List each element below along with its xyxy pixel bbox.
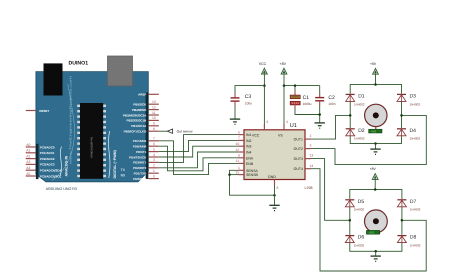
power +8V (VS) xyxy=(280,62,320,124)
svg-text:11: 11 xyxy=(236,159,240,163)
junction VCC/C3 xyxy=(263,84,266,87)
svg-text:C1: C1 xyxy=(303,95,310,101)
svg-text:IN3: IN3 xyxy=(246,145,252,149)
ground below C3 xyxy=(230,119,240,124)
svg-text:D3: D3 xyxy=(410,93,417,99)
svg-text:DUINO1: DUINO1 xyxy=(69,61,89,67)
pin RESET xyxy=(26,110,36,112)
ground below C2 xyxy=(315,123,325,128)
wire OUT3 to motor2 left xyxy=(311,159,350,221)
svg-text:A5: A5 xyxy=(26,172,30,176)
svg-text:IN4: IN4 xyxy=(246,151,252,155)
svg-text:A0: A0 xyxy=(26,143,30,147)
label ANALOG IN xyxy=(60,147,61,177)
pin PB1/OC1A (9) xyxy=(148,125,159,127)
out sensor terminal xyxy=(159,129,194,133)
pin PB2/SS/OC1B (10) xyxy=(148,119,159,121)
right header strip xyxy=(146,93,149,180)
svg-text:1N4002: 1N4002 xyxy=(410,244,421,248)
pin PC5/ADC5/SCL (A5) xyxy=(26,175,36,177)
svg-text:OUT3: OUT3 xyxy=(294,157,303,161)
svg-text:ANALOG IN: ANALOG IN xyxy=(65,155,69,176)
pin OUT1 (2) xyxy=(305,138,311,140)
svg-text:7: 7 xyxy=(238,136,240,140)
wire OUT1 to motor1 left xyxy=(311,115,350,139)
atmega chip U-chip xyxy=(80,103,103,179)
pin IN3 (10) xyxy=(238,145,244,147)
junction bridge2 bottom xyxy=(374,250,377,253)
svg-text:7: 7 xyxy=(153,137,155,141)
svg-text:1N4002: 1N4002 xyxy=(354,137,365,141)
svg-text:PB0/ICP1/CLKO: PB0/ICP1/CLKO xyxy=(124,130,147,134)
wire bridge1 ground stub xyxy=(375,144,377,149)
svg-text:GND: GND xyxy=(268,175,276,179)
svg-text:13: 13 xyxy=(152,100,156,104)
svg-text:D1: D1 xyxy=(358,93,365,99)
diode D3 1N4002 xyxy=(397,93,420,106)
svg-text:PD2/INT0: PD2/INT0 xyxy=(133,166,147,170)
svg-text:PD6/AIN0: PD6/AIN0 xyxy=(133,145,147,149)
motor M2 xyxy=(365,210,388,235)
svg-text:PB1/OC1A: PB1/OC1A xyxy=(131,124,147,128)
svg-text:1N4002: 1N4002 xyxy=(354,208,365,212)
junction motor2 right xyxy=(401,219,404,222)
diode D2 1N4002 xyxy=(346,128,365,141)
diode D4 1N4002 xyxy=(397,128,420,141)
svg-text:3: 3 xyxy=(310,144,312,148)
svg-text:6: 6 xyxy=(153,142,155,146)
svg-text:1: 1 xyxy=(153,169,155,173)
wire C2 bottom xyxy=(319,101,321,105)
svg-text:+8V: +8V xyxy=(370,62,377,66)
svg-text:www.TheEngineeringProjects.com: www.TheEngineeringProjects.com xyxy=(69,75,73,164)
svg-text:PB3/MOSI/OC2A: PB3/MOSI/OC2A xyxy=(123,113,147,117)
svg-text:2: 2 xyxy=(153,164,155,168)
diode D8 1N4002 xyxy=(397,235,420,248)
svg-text:U1: U1 xyxy=(290,123,297,129)
svg-text:+8V: +8V xyxy=(280,62,287,66)
svg-text:A4: A4 xyxy=(26,166,30,170)
svg-text:AREF: AREF xyxy=(138,93,146,97)
svg-text:2: 2 xyxy=(310,134,312,138)
ground bridge1 xyxy=(370,149,380,154)
pin PD2/INT0 (2) xyxy=(148,167,159,169)
svg-text:12: 12 xyxy=(152,105,156,109)
pin PB0/ICP1/CLKO (8) xyxy=(148,130,159,132)
junction GND pin 8 xyxy=(273,194,276,197)
svg-text:D2: D2 xyxy=(358,128,365,134)
TEP swoosh curve xyxy=(52,84,74,181)
arduino DUINO1 board xyxy=(26,56,159,191)
svg-text:PD7/AIN1: PD7/AIN1 xyxy=(133,139,147,143)
wire C2 top xyxy=(319,86,321,94)
wire PD6 to ENA xyxy=(159,146,238,171)
pin PD6/AIN0 (6) xyxy=(148,145,159,147)
wire bridge2 ground stub xyxy=(375,251,377,256)
pin IN2 (7) xyxy=(238,139,244,141)
wire OUT2 to motor1 right xyxy=(311,115,426,164)
svg-text:5: 5 xyxy=(153,147,155,151)
pin OUT4 (14) xyxy=(305,168,311,170)
svg-text:D8: D8 xyxy=(410,235,417,241)
svg-text:VS: VS xyxy=(278,133,283,137)
usb connector xyxy=(108,56,133,86)
power jack xyxy=(44,63,63,95)
wire C3 bottom xyxy=(234,101,236,105)
svg-text:100n: 100n xyxy=(245,102,252,106)
svg-text:PD4/T0/XCK: PD4/T0/XCK xyxy=(129,155,147,159)
svg-text:+8V: +8V xyxy=(370,167,377,171)
pin PB5/SCK (13) xyxy=(148,103,159,105)
svg-text:10: 10 xyxy=(152,116,156,120)
pin PC3/ADC3 (A3) xyxy=(26,163,36,165)
wire VS rail xyxy=(283,73,285,124)
junction bridge1 bottom xyxy=(374,142,377,145)
power +8V bridge2 xyxy=(370,167,378,190)
svg-text:PC3/ADC3: PC3/ADC3 xyxy=(40,163,55,167)
svg-text:L298: L298 xyxy=(305,186,313,190)
svg-text:ENB: ENB xyxy=(246,162,254,166)
diode D6 1N4002 xyxy=(345,235,364,248)
svg-text:SENSB: SENSB xyxy=(246,173,259,177)
pin SENSA (1) xyxy=(238,169,244,171)
pin PB4/MISO (12) xyxy=(148,109,159,111)
svg-text:4: 4 xyxy=(153,153,155,157)
junction motor2 left xyxy=(349,219,352,222)
svg-text:1000u: 1000u xyxy=(303,102,312,106)
svg-text:OUT4: OUT4 xyxy=(294,167,303,171)
svg-text:IN1: IN1 xyxy=(246,133,252,137)
svg-text:5: 5 xyxy=(238,130,240,134)
ground bridge2 xyxy=(371,256,381,261)
left header strip xyxy=(36,144,39,179)
power +8V bridge1 xyxy=(370,62,378,85)
wire VCC rail xyxy=(263,73,265,124)
svg-text:9: 9 xyxy=(266,120,268,124)
svg-text:PB5/SCK: PB5/SCK xyxy=(133,103,147,107)
svg-text:PC4/ADC4/SDA: PC4/ADC4/SDA xyxy=(40,169,63,173)
diode D7 1N4002 xyxy=(397,199,420,212)
svg-text:1N4002: 1N4002 xyxy=(354,244,365,248)
svg-text:TX: TX xyxy=(121,168,126,172)
svg-text:Out sensor: Out sensor xyxy=(177,129,194,133)
svg-text:VCC: VCC xyxy=(252,133,260,137)
board body xyxy=(36,72,148,182)
svg-text:PB4/MISO: PB4/MISO xyxy=(132,108,147,112)
svg-text:1N4002: 1N4002 xyxy=(410,102,421,106)
wire C1 bottom xyxy=(294,104,296,109)
wire SENSA SENSB tie to ground net xyxy=(230,170,275,195)
svg-text:14: 14 xyxy=(310,164,314,168)
wire OUT4 to motor2 right xyxy=(311,169,426,271)
svg-text:PC1/ADC1: PC1/ADC1 xyxy=(40,151,55,155)
svg-text:6: 6 xyxy=(238,154,240,158)
junction motor1 right xyxy=(400,114,403,117)
wire PD7 to ENB xyxy=(159,141,238,175)
pin PD0/RXD (0) xyxy=(148,178,159,180)
svg-text:9: 9 xyxy=(153,122,155,126)
pin PD1/TXD (1) xyxy=(148,172,159,174)
junction C2 bottom xyxy=(318,113,321,116)
pin PD5/T1 (5) xyxy=(148,151,159,153)
svg-text:PD1/TXD: PD1/TXD xyxy=(134,172,148,176)
svg-text:DIGITAL (~PWM): DIGITAL (~PWM) xyxy=(113,149,117,178)
wire GND pin to ground xyxy=(274,186,276,206)
svg-text:1N4002: 1N4002 xyxy=(410,137,421,141)
pin VCC (9) xyxy=(263,124,265,130)
bridge2 frame wires xyxy=(350,190,402,252)
pin PC4/ADC4/SDA (A4) xyxy=(26,169,36,171)
pin PD7/AIN1 (7) xyxy=(148,140,159,142)
svg-text:A2: A2 xyxy=(26,154,30,158)
svg-text:10: 10 xyxy=(236,142,240,146)
svg-text:A3: A3 xyxy=(26,160,30,164)
svg-text:PD3/INT1: PD3/INT1 xyxy=(133,161,147,165)
svg-text:1: 1 xyxy=(238,166,240,170)
wire C3 top xyxy=(235,86,264,94)
svg-text:15: 15 xyxy=(236,171,240,175)
svg-text:1N4002: 1N4002 xyxy=(354,102,365,106)
svg-text:PC0/ADC0: PC0/ADC0 xyxy=(40,145,55,149)
svg-text:VCC: VCC xyxy=(259,62,267,66)
pin OUT2 (3) xyxy=(305,148,311,150)
svg-text:PC2/ADC2: PC2/ADC2 xyxy=(40,157,55,161)
svg-text:D6: D6 xyxy=(358,235,365,241)
pin PC2/ADC2 (A2) xyxy=(26,158,36,160)
wire C1 top xyxy=(294,86,296,91)
svg-text:1N4002: 1N4002 xyxy=(410,208,421,212)
junction bridge2 top xyxy=(374,188,377,191)
pin PC0/ADC0 (A0) xyxy=(26,146,36,148)
svg-text:D4: D4 xyxy=(410,128,417,134)
power VCC xyxy=(259,62,268,124)
diode D5 1N4002 xyxy=(345,199,364,212)
junction SENSB xyxy=(228,173,231,176)
capacitor C3 100n xyxy=(231,86,265,119)
svg-text:13: 13 xyxy=(310,154,314,158)
wire +8V to caps xyxy=(284,85,320,87)
svg-text:ARDUINO UNO R3: ARDUINO UNO R3 xyxy=(46,187,77,191)
svg-text:OUT1: OUT1 xyxy=(294,138,303,142)
svg-text:OUT2: OUT2 xyxy=(294,147,303,151)
svg-text:RESET: RESET xyxy=(39,109,49,113)
svg-text:D5: D5 xyxy=(358,199,365,205)
svg-text:RX: RX xyxy=(121,173,126,177)
pin IN1 (5) xyxy=(238,134,244,136)
svg-text:C3: C3 xyxy=(245,94,252,100)
svg-text:D7: D7 xyxy=(410,199,417,205)
pin PB3/MOSI/OC2A (11) xyxy=(148,114,159,116)
pin ENB (11) xyxy=(238,162,244,164)
capacitor C2 100n xyxy=(315,86,336,123)
wire PD5 to IN2 xyxy=(159,140,238,151)
svg-text:3: 3 xyxy=(153,158,155,162)
pin IN4 (12) xyxy=(238,151,244,153)
pin SENSB (15) xyxy=(238,174,244,176)
motor M1 xyxy=(365,104,387,133)
pin PD4/T0/XCK (4) xyxy=(148,156,159,158)
pin ENA (6) xyxy=(238,157,244,159)
junction +8V xyxy=(283,84,286,87)
svg-text:100n: 100n xyxy=(328,102,335,106)
svg-text:4: 4 xyxy=(286,120,288,124)
svg-text:+0.0: +0.0 xyxy=(368,231,374,235)
svg-text:12: 12 xyxy=(236,148,240,152)
svg-text:+0.0: +0.0 xyxy=(371,129,377,133)
wire PD4 to IN3 xyxy=(159,146,238,157)
svg-text:PD5/T1: PD5/T1 xyxy=(136,150,147,154)
svg-text:C2: C2 xyxy=(328,95,335,101)
svg-text:A1: A1 xyxy=(26,149,30,153)
U1 body xyxy=(244,130,305,180)
ground below U1 xyxy=(269,205,279,210)
junction C1 top xyxy=(294,84,297,87)
label DIGITAL (~PWM) xyxy=(109,131,110,178)
svg-text:PB2/SS/OC1B: PB2/SS/OC1B xyxy=(126,119,147,123)
svg-text:8: 8 xyxy=(153,127,155,131)
pin AREF xyxy=(148,93,159,95)
bridge1 frame wires xyxy=(350,85,401,144)
svg-text:8: 8 xyxy=(277,186,279,190)
svg-text:0: 0 xyxy=(153,174,155,178)
svg-text:ATMEGA328P-PU: ATMEGA328P-PU xyxy=(91,137,94,158)
junction bridge1 top xyxy=(374,83,377,86)
wire PD2 to IN4 xyxy=(159,152,238,168)
pin PD3/INT1 (3) xyxy=(148,161,159,163)
diode D1 1N4002 xyxy=(346,93,365,106)
svg-text:ENA: ENA xyxy=(246,156,254,160)
op chip U1 L298 xyxy=(236,120,314,190)
svg-text:IN2: IN2 xyxy=(246,139,252,143)
pin OUT3 (13) xyxy=(305,158,311,160)
pin GND (8) xyxy=(274,180,276,186)
svg-text:PD0/RXD: PD0/RXD xyxy=(133,177,147,181)
pin VS (4) xyxy=(283,124,285,130)
svg-text:PC5/ADC5/SCL: PC5/ADC5/SCL xyxy=(40,174,62,178)
svg-text:11: 11 xyxy=(152,111,156,115)
junction motor1 left xyxy=(349,114,352,117)
pin PC1/ADC1 (A1) xyxy=(26,152,36,154)
wire PD3 to IN1 xyxy=(159,135,238,163)
capacitor C1 1000u electrolytic xyxy=(290,86,319,115)
